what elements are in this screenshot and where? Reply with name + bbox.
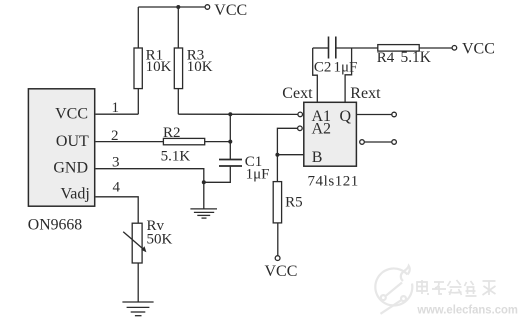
wire branch down to C1 <box>229 114 231 159</box>
junction dot GND net / C1 return <box>202 180 206 184</box>
IC U1 ON9668 body <box>28 89 94 206</box>
svg-text:ON9668: ON9668 <box>28 217 83 234</box>
capacitor C2 <box>313 37 378 59</box>
input terminal circle A2 <box>298 126 303 131</box>
svg-text:VCC: VCC <box>214 2 247 19</box>
wire pin2 to R2 <box>96 141 164 143</box>
resistor R1 <box>134 7 142 114</box>
wire R2 to node A1 branch <box>205 141 231 143</box>
svg-text:Q: Q <box>340 108 352 125</box>
label R1 10K <box>146 47 172 75</box>
svg-text:OUT: OUT <box>56 133 89 150</box>
inversion bubble Qbar <box>360 140 365 145</box>
junction dot R2/C1 <box>228 140 232 144</box>
terminal circle Qbar <box>392 140 397 145</box>
terminal VCC right <box>452 46 457 51</box>
capacitor C1 <box>219 160 242 167</box>
wire pin4 to Rv <box>96 197 139 224</box>
junction dot top rail / R3 <box>176 5 180 9</box>
resistor R5 <box>273 182 281 256</box>
svg-text:5.1K: 5.1K <box>401 49 431 66</box>
wire: top VCC rail <box>138 6 205 8</box>
potentiometer Rv <box>123 223 146 302</box>
svg-text:R5: R5 <box>285 194 303 210</box>
svg-text:Vadj: Vadj <box>60 186 89 203</box>
svg-text:74ls121: 74ls121 <box>308 174 359 190</box>
wire A2 input <box>277 128 297 154</box>
IC U2 74ls121 body <box>304 102 357 166</box>
svg-text:10K: 10K <box>187 59 213 75</box>
watermark logo elecfans <box>375 266 412 314</box>
label Rv 50K <box>147 218 173 248</box>
wire B node down to R5 <box>276 155 278 182</box>
svg-text:50K: 50K <box>147 232 173 248</box>
watermark text: dian zi fa shao you <box>417 280 496 296</box>
wire node A1 net: R3 bottom to A1 input <box>178 113 298 115</box>
svg-text:www.elecfans.com: www.elecfans.com <box>416 303 517 317</box>
svg-text:R2: R2 <box>163 125 181 141</box>
svg-text:VCC: VCC <box>55 105 88 122</box>
svg-text:1μF: 1μF <box>246 167 270 183</box>
svg-text:1μF: 1μF <box>334 60 358 76</box>
svg-text:VCC: VCC <box>462 41 495 58</box>
svg-text:10K: 10K <box>146 59 172 75</box>
U1 pin name labels <box>53 105 89 202</box>
junction dot B node <box>275 153 279 157</box>
terminal circle Q <box>392 112 397 117</box>
wire Q output <box>356 114 391 116</box>
svg-text:Cext: Cext <box>282 85 313 102</box>
pin Rext stub wire <box>345 48 352 102</box>
svg-text:R4: R4 <box>377 50 395 66</box>
resistor R4 <box>378 45 452 52</box>
label C1 1uF <box>245 154 270 183</box>
wire pin3 GND net <box>96 169 204 209</box>
svg-text:GND: GND <box>53 159 88 176</box>
label R2 5.1K <box>161 125 191 164</box>
ground symbol G1 <box>190 209 217 218</box>
resistor R3 <box>174 7 182 114</box>
svg-text:C2: C2 <box>314 60 332 76</box>
wire Qbar output <box>364 141 392 143</box>
wire pin1 to R1 <box>96 113 139 115</box>
svg-text:A2: A2 <box>312 121 332 138</box>
svg-text:4: 4 <box>113 180 121 196</box>
U2 pin labels <box>312 108 352 166</box>
wire C1 bottom to GND net <box>204 167 231 183</box>
input terminal circle A1 <box>298 112 303 117</box>
terminal VCC bottom <box>275 256 280 261</box>
svg-text:Rext: Rext <box>350 85 381 102</box>
label R3 10K <box>187 47 213 75</box>
svg-text:5.1K: 5.1K <box>161 149 191 165</box>
terminal VCC top <box>205 5 210 10</box>
resistor R2 <box>163 138 204 144</box>
svg-text:B: B <box>312 149 323 166</box>
ground symbol G2 <box>122 302 153 316</box>
wire B node to IC <box>277 154 303 156</box>
pin Cext stub wire <box>313 48 318 102</box>
junction dot A1 net branch <box>228 112 232 116</box>
svg-text:VCC: VCC <box>265 263 298 280</box>
